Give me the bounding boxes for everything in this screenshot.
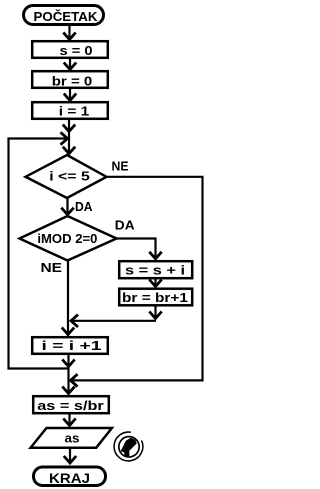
svg-text:i = 1: i = 1 (59, 104, 90, 119)
wire POCETAK to s=0 (68, 26, 70, 39)
printer icon: bolt glyph (121, 438, 137, 457)
process box s=s+i (119, 261, 192, 278)
wire s=0 to br=0 (69, 59, 71, 69)
process box as=s/br (33, 396, 109, 413)
NE loop wire: right, down, left into main line above as=s/br (72, 177, 203, 381)
return wire to NE vertical (72, 320, 156, 322)
svg-text:NE: NE (112, 158, 129, 173)
printer icon: inner circle (119, 437, 139, 457)
DA branch wire: right then down into s=s+i (117, 239, 156, 259)
wire output to KRAJ (69, 449, 71, 463)
process box br=br+1 (119, 289, 192, 306)
terminator KRAJ (34, 467, 106, 486)
svg-text:i = i +1: i = i +1 (42, 338, 102, 353)
wire as=s/br to output (68, 414, 70, 425)
svg-text:DA: DA (75, 199, 93, 214)
svg-text:iMOD 2=0: iMOD 2=0 (37, 231, 97, 246)
svg-text:as: as (65, 431, 80, 446)
svg-text:KRAJ: KRAJ (49, 470, 90, 486)
wire s=s+i to br=br+1 (154, 279, 156, 286)
process box br=0 (32, 71, 108, 88)
svg-text:NE: NE (41, 260, 63, 275)
svg-text:br = br+1: br = br+1 (122, 290, 188, 305)
wire br=br+1 down to return line (154, 306, 156, 318)
wire i=1 to diamond1 with junction (68, 119, 70, 154)
process box i=1 (32, 102, 108, 119)
output parallelogram as (31, 428, 112, 448)
svg-text:s = s + i: s = s + i (125, 263, 185, 278)
wire diamond1 to diamond2 (66, 198, 68, 216)
decision diamond2 iMOD 2=0 (20, 216, 117, 261)
process box s=0 (32, 41, 108, 58)
terminator POCETAK (24, 6, 104, 25)
printer icon: outer arc (114, 432, 143, 461)
process box i=i+1 (32, 337, 108, 354)
svg-text:DA: DA (115, 218, 135, 233)
wire i=i+1 down to as=s/br with junctions (67, 354, 69, 395)
left loop wire: from below i=i+1 box, left, up, into junction (9, 139, 69, 369)
NE vertical wire diamond2 to i=i+1 (67, 261, 69, 337)
decision diamond1 i<=5 (26, 155, 107, 198)
svg-text:as = s/br: as = s/br (37, 398, 104, 413)
svg-text:i <= 5: i <= 5 (49, 169, 90, 184)
svg-text:POČETAK: POČETAK (34, 9, 99, 24)
svg-text:br = 0: br = 0 (52, 74, 93, 89)
wire br=0 to i=1 (69, 89, 71, 100)
svg-text:s = 0: s = 0 (60, 43, 93, 58)
